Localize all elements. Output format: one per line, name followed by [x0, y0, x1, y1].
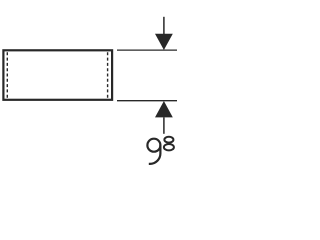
left dashed line	[6, 52, 8, 97]
bottom extension line	[117, 100, 177, 102]
bottom dimension arrow	[155, 101, 173, 117]
right dashed line	[107, 52, 109, 97]
digit 9	[147, 139, 160, 164]
panel outline	[3, 50, 112, 100]
top extension line	[117, 49, 177, 51]
top dimension arrow	[163, 17, 165, 36]
digit 8 superscript	[164, 137, 174, 151]
